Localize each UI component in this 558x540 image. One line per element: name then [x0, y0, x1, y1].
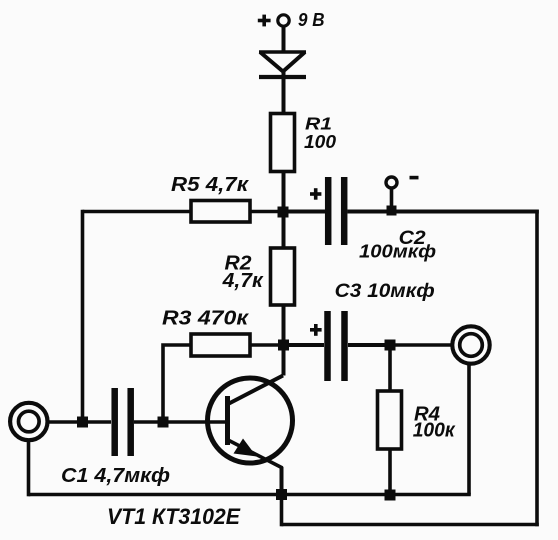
wire input connector down to bottom rail: [27, 441, 31, 497]
wire emitter node to bottom return: [280, 495, 284, 527]
wire R5 to node A: [250, 210, 278, 214]
wire output connector down: [467, 364, 471, 495]
resistor R3: [162, 307, 250, 357]
transistor VT1: [107, 376, 293, 530]
wire node B to C3: [289, 343, 324, 347]
diode VD1: [259, 52, 306, 77]
wire node A to R2: [282, 217, 286, 248]
node input junction: [77, 417, 88, 428]
resistor R2: [222, 248, 295, 305]
svg-text:100к: 100к: [413, 420, 456, 442]
wire right vertical rail: [535, 210, 539, 527]
capacitor C3: [310, 280, 435, 381]
wire diode to R1: [282, 71, 286, 114]
wire left rail to R5: [83, 210, 192, 214]
wire node C to R4: [388, 350, 392, 391]
svg-text:R5 4,7к: R5 4,7к: [171, 173, 250, 196]
wire node C to output connector: [395, 343, 453, 347]
svg-text:9 В: 9 В: [298, 9, 325, 30]
node B junction: [278, 340, 289, 351]
wire R2 to node B: [282, 305, 286, 341]
svg-text:C1 4,7мкф: C1 4,7мкф: [61, 465, 170, 487]
wire C3 to node C: [348, 343, 390, 347]
svg-text:VT1 КТ3102Е: VT1 КТ3102Е: [107, 504, 241, 529]
connector XS2 output: [452, 326, 489, 363]
resistor R4: [378, 391, 456, 449]
wire R4 to bottom rail: [388, 449, 392, 495]
wire bottom return: [282, 523, 539, 527]
svg-text:C3 10мкф: C3 10мкф: [335, 280, 435, 302]
node base junction: [158, 417, 169, 428]
wire from +9V to diode: [282, 26, 286, 53]
svg-text:100мкф: 100мкф: [359, 241, 436, 262]
node A junction: [278, 207, 289, 218]
svg-text:4,7к: 4,7к: [222, 269, 265, 292]
wire C2 to minus terminal and right rail: [348, 210, 539, 214]
node minus output terminal: [386, 176, 419, 216]
connector XS1 input: [10, 403, 47, 440]
node R4 bottom junction: [385, 490, 396, 501]
wire R3 right to node B: [250, 343, 279, 347]
resistor R5: [171, 173, 250, 222]
node C junction: [385, 340, 396, 351]
wire collector up to node B: [282, 345, 286, 376]
wire input connector to C1: [48, 420, 111, 424]
wire left vertical rail: [81, 210, 85, 422]
capacitor C2: [310, 177, 436, 262]
wire emitter down to bottom rail: [280, 467, 284, 495]
wire R1 to node A: [282, 171, 286, 208]
svg-text:100: 100: [304, 131, 337, 152]
wire R3 left down to base node: [163, 345, 191, 422]
capacitor C1: [61, 388, 170, 487]
node +9V terminal: [258, 9, 325, 30]
svg-text:R3 470к: R3 470к: [162, 307, 250, 330]
wire bottom rail: [29, 493, 471, 497]
resistor R1: [271, 114, 337, 172]
wire node A to C2: [288, 210, 325, 214]
node emitter junction: [276, 489, 287, 500]
wire C1 to transistor base: [134, 420, 227, 424]
